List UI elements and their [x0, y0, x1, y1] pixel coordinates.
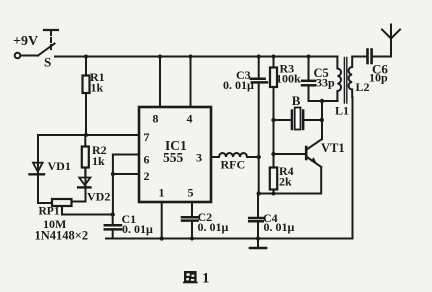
inductor RFC: [211, 153, 259, 172]
junction R1-R2-pin7: [84, 133, 88, 137]
svg-text:4: 4: [187, 112, 193, 126]
junction C3-rail: [257, 55, 261, 59]
svg-text:1k: 1k: [91, 81, 104, 95]
svg-text:L1: L1: [335, 104, 349, 118]
wire RFC node down: [258, 157, 260, 194]
antenna: [382, 25, 400, 57]
caption figure 1: [183, 271, 210, 287]
svg-text:0. 01μ: 0. 01μ: [198, 220, 229, 234]
junction pin1-rail: [160, 236, 164, 240]
wire bottom rail: [106, 238, 353, 240]
capacitor C6: [368, 50, 392, 85]
wire L2 top to C6: [353, 56, 367, 58]
diode VD2: [78, 168, 110, 204]
wire pin7 row: [38, 134, 139, 136]
junction C4-rail: [256, 236, 260, 240]
wire pin5: [191, 202, 193, 217]
svg-text:L2: L2: [356, 80, 370, 94]
inductor L2: [349, 57, 370, 98]
junction C4 top: [257, 191, 261, 195]
junction pin4-rail: [189, 55, 193, 59]
resistor R2: [82, 135, 107, 178]
svg-text:3: 3: [196, 151, 202, 165]
svg-text:1N4148×2: 1N4148×2: [35, 229, 89, 243]
capacitor C2: [182, 210, 229, 239]
svg-text:VT1: VT1: [321, 141, 345, 155]
junction R4 bottom: [272, 192, 276, 196]
svg-text:RFC: RFC: [221, 158, 246, 172]
junction base-R4: [271, 152, 275, 156]
potentiometer RP1: [38, 199, 113, 231]
junction R3-rail: [272, 55, 276, 59]
wire top rail: [55, 56, 338, 58]
wire pin8: [159, 57, 161, 108]
wire pin1: [161, 202, 163, 239]
op IC1 555 box: [139, 107, 211, 202]
svg-text:S: S: [44, 55, 51, 70]
svg-text:+9V: +9V: [13, 34, 38, 49]
svg-text:0. 01μ: 0. 01μ: [223, 78, 254, 92]
capacitor C4: [249, 194, 294, 239]
switch S: [15, 44, 55, 70]
diode VD1: [30, 135, 71, 203]
capacitor C3: [223, 57, 267, 158]
junction C2-rail: [190, 237, 194, 241]
svg-text:8: 8: [153, 112, 159, 126]
wire tank bottom: [309, 100, 338, 102]
svg-text:1k: 1k: [92, 154, 105, 168]
svg-text:VD1: VD1: [48, 159, 71, 173]
capacitor C1: [105, 212, 153, 239]
svg-text:6: 6: [144, 153, 150, 167]
svg-text:2k: 2k: [279, 174, 292, 188]
ground: [250, 239, 266, 249]
junction tank-collector: [320, 99, 324, 103]
resistor R1: [83, 57, 105, 136]
junction crystal right: [320, 118, 324, 122]
capacitor C5: [302, 57, 335, 102]
svg-text:555: 555: [163, 150, 184, 165]
wire emitter bottom row: [259, 193, 321, 195]
svg-text:0. 01μ: 0. 01μ: [122, 222, 153, 236]
wire base row: [274, 153, 307, 155]
wire pin4: [190, 57, 192, 108]
svg-text:10p: 10p: [369, 71, 388, 85]
transistor VT1: [306, 101, 344, 194]
junction pin8-rail: [158, 55, 162, 59]
svg-text:7: 7: [144, 130, 150, 144]
junction crystal left: [271, 118, 275, 122]
svg-text:5: 5: [188, 186, 194, 200]
junction C1 top: [111, 212, 115, 216]
svg-text:B: B: [292, 93, 301, 108]
resistor R4: [270, 154, 294, 194]
svg-text:2: 2: [144, 169, 150, 183]
transformer core: [344, 58, 346, 104]
power terminal +9V: [13, 30, 58, 49]
inductor L1: [335, 57, 349, 118]
svg-text:33p: 33p: [316, 76, 335, 90]
junction C5-rail: [307, 55, 311, 59]
svg-text:RP1: RP1: [39, 206, 60, 218]
wire L2 bottom: [352, 97, 354, 239]
crystal B: [274, 93, 322, 130]
node A junction R1/wire: [84, 55, 88, 59]
junction RFC-C3 node: [257, 155, 261, 159]
svg-text:1: 1: [202, 271, 210, 287]
wire R3 to base: [273, 120, 275, 154]
resistor R3: [270, 57, 301, 121]
junction pin2 tie: [111, 172, 115, 176]
svg-text:1: 1: [159, 186, 165, 200]
svg-text:100k: 100k: [276, 72, 301, 86]
wire pins 2-6 tie: [113, 155, 139, 215]
svg-text:VD2: VD2: [87, 190, 110, 204]
svg-text:0. 01μ: 0. 01μ: [264, 220, 295, 234]
